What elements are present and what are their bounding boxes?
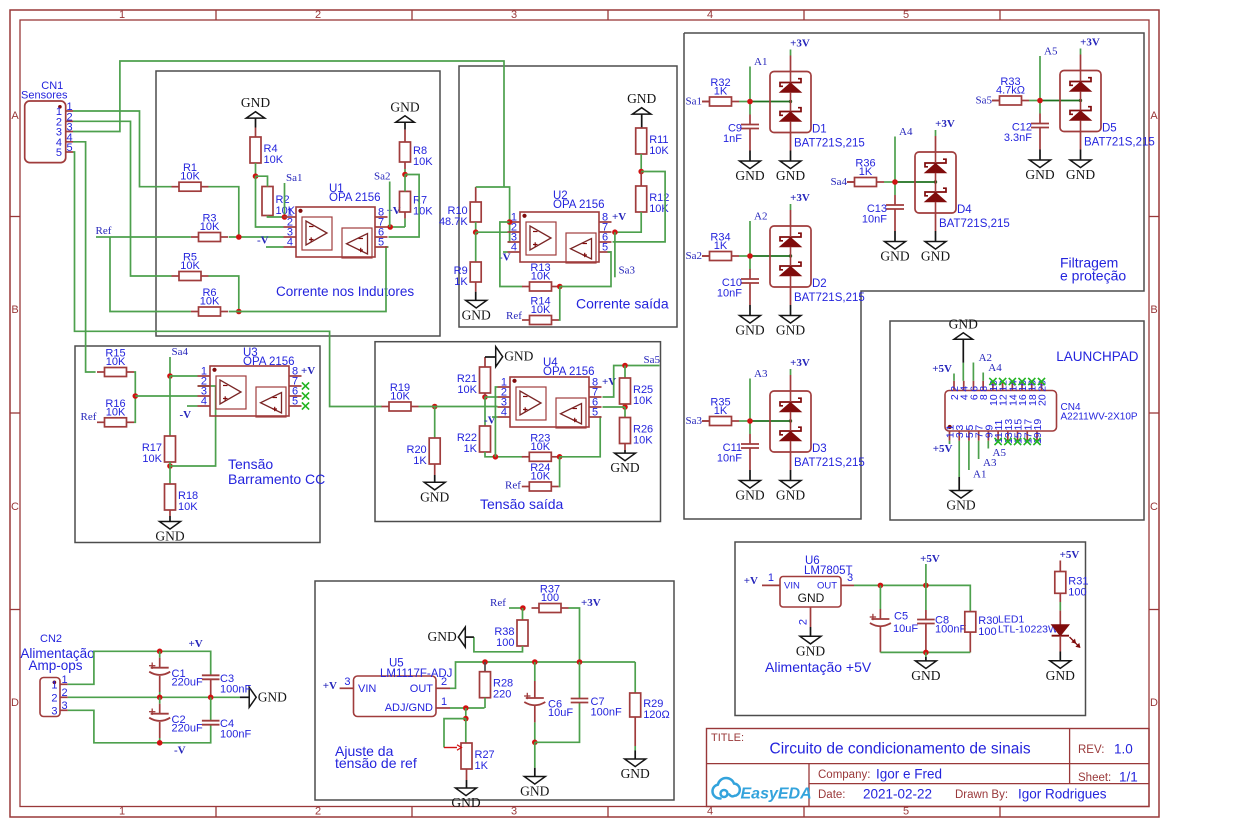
- svg-text:1nF: 1nF: [723, 133, 742, 145]
- svg-text:10K: 10K: [106, 406, 126, 418]
- svg-text:GND: GND: [610, 460, 639, 475]
- svg-text:5: 5: [903, 806, 909, 818]
- svg-text:D5: D5: [1102, 123, 1117, 135]
- svg-text:220uF: 220uF: [172, 723, 203, 735]
- svg-text:5: 5: [903, 9, 909, 21]
- svg-text:EasyEDA: EasyEDA: [741, 786, 812, 803]
- svg-text:100nF: 100nF: [220, 729, 251, 741]
- svg-text:A: A: [1150, 110, 1158, 122]
- svg-text:TITLE:: TITLE:: [711, 732, 744, 744]
- svg-text:GND: GND: [776, 488, 805, 503]
- svg-text:120Ω: 120Ω: [643, 709, 670, 721]
- svg-text:100nF: 100nF: [220, 683, 251, 695]
- svg-text:10K: 10K: [531, 471, 551, 483]
- svg-text:+V: +V: [612, 211, 626, 223]
- svg-text:+V: +V: [744, 575, 758, 587]
- svg-text:1: 1: [119, 806, 125, 818]
- svg-text:+3V: +3V: [790, 357, 810, 369]
- svg-text:10uF: 10uF: [893, 623, 918, 635]
- svg-text:1K: 1K: [475, 760, 489, 772]
- svg-text:Ref: Ref: [506, 310, 522, 322]
- svg-text:2: 2: [441, 676, 447, 688]
- svg-text:Corrente saída: Corrente saída: [576, 296, 669, 312]
- svg-text:GND: GND: [390, 99, 419, 114]
- svg-text:ADJ/GND: ADJ/GND: [385, 702, 433, 714]
- svg-text:Drawn By:: Drawn By:: [955, 789, 1008, 801]
- svg-text:1K: 1K: [714, 240, 728, 252]
- svg-text:GND: GND: [735, 488, 764, 503]
- svg-text:GND: GND: [520, 784, 549, 799]
- svg-text:2: 2: [51, 692, 57, 704]
- svg-text:REV:: REV:: [1078, 744, 1104, 756]
- svg-text:Barramento CC: Barramento CC: [228, 471, 325, 487]
- svg-text:10K: 10K: [633, 395, 653, 407]
- svg-text:GND: GND: [911, 668, 940, 683]
- svg-text:+5V: +5V: [932, 363, 952, 375]
- svg-text:Sa4: Sa4: [831, 176, 848, 188]
- svg-text:A2: A2: [754, 211, 767, 223]
- svg-text:1.0: 1.0: [1114, 742, 1133, 757]
- svg-text:LAUNCHPAD: LAUNCHPAD: [1056, 349, 1139, 364]
- svg-text:4: 4: [501, 407, 507, 419]
- svg-text:5: 5: [378, 237, 384, 249]
- svg-text:100: 100: [496, 637, 514, 649]
- svg-text:4: 4: [201, 396, 207, 408]
- svg-text:5: 5: [56, 147, 62, 159]
- svg-text:Circuito de condicionamento de: Circuito de condicionamento de sinais: [770, 741, 1031, 758]
- svg-text:Ref: Ref: [490, 597, 506, 609]
- svg-text:-V: -V: [257, 235, 269, 247]
- svg-text:2: 2: [315, 9, 321, 21]
- svg-text:GND: GND: [627, 91, 656, 106]
- svg-text:100: 100: [1068, 586, 1086, 598]
- svg-text:10K: 10K: [413, 206, 433, 218]
- svg-text:2021-02-22: 2021-02-22: [863, 787, 932, 802]
- svg-text:A4: A4: [988, 362, 1002, 374]
- svg-text:+5V: +5V: [920, 553, 940, 565]
- svg-text:Amp-ops: Amp-ops: [28, 658, 82, 673]
- svg-text:Corrente nos Indutores: Corrente nos Indutores: [276, 284, 414, 299]
- svg-text:10K: 10K: [531, 304, 551, 316]
- svg-text:BAT721S,215: BAT721S,215: [794, 457, 865, 469]
- svg-text:10K: 10K: [649, 145, 669, 157]
- svg-text:GND: GND: [1025, 167, 1054, 182]
- svg-text:1K: 1K: [714, 405, 728, 417]
- svg-text:A2211WV-2X10P: A2211WV-2X10P: [1061, 412, 1138, 423]
- svg-text:A5: A5: [1044, 46, 1058, 58]
- svg-text:GND: GND: [798, 591, 825, 605]
- svg-text:tensão de ref: tensão de ref: [335, 755, 417, 771]
- svg-text:1: 1: [62, 674, 68, 686]
- svg-text:GND: GND: [796, 643, 825, 658]
- svg-text:LTL-10223W: LTL-10223W: [998, 624, 1058, 636]
- svg-text:BAT721S,215: BAT721S,215: [794, 138, 865, 150]
- svg-text:+V: +V: [387, 205, 401, 217]
- svg-text:GND: GND: [241, 95, 270, 110]
- svg-text:A1: A1: [973, 469, 986, 481]
- svg-text:GND: GND: [621, 766, 650, 781]
- svg-text:220: 220: [493, 689, 511, 701]
- svg-text:10K: 10K: [178, 501, 198, 513]
- svg-text:BAT721S,215: BAT721S,215: [1084, 137, 1155, 149]
- svg-text:10K: 10K: [633, 435, 653, 447]
- svg-text:Sa3: Sa3: [619, 265, 636, 277]
- svg-text:+3V: +3V: [581, 597, 601, 609]
- svg-text:GND: GND: [155, 529, 184, 544]
- svg-text:OUT: OUT: [817, 581, 837, 592]
- svg-text:Sa2: Sa2: [686, 250, 703, 262]
- svg-text:4: 4: [707, 9, 713, 21]
- svg-text:GND: GND: [949, 316, 978, 331]
- svg-text:GND: GND: [428, 629, 457, 644]
- svg-text:10K: 10K: [200, 296, 220, 308]
- svg-text:VIN: VIN: [784, 581, 800, 592]
- svg-text:A4: A4: [899, 126, 913, 138]
- svg-text:C: C: [11, 501, 19, 513]
- svg-text:2: 2: [798, 619, 810, 625]
- svg-text:+3V: +3V: [1080, 37, 1100, 49]
- svg-text:10K: 10K: [413, 156, 433, 168]
- svg-text:100nF: 100nF: [935, 624, 966, 636]
- svg-text:10K: 10K: [531, 271, 551, 283]
- svg-text:C5: C5: [894, 611, 908, 623]
- svg-text:-V: -V: [180, 409, 192, 421]
- svg-text:1K: 1K: [454, 276, 468, 288]
- svg-text:5: 5: [602, 242, 608, 254]
- svg-text:1/1: 1/1: [1119, 770, 1138, 785]
- svg-text:D3: D3: [812, 443, 827, 455]
- svg-text:3.3nF: 3.3nF: [1004, 132, 1032, 144]
- svg-text:GND: GND: [420, 489, 449, 504]
- svg-text:GND: GND: [946, 498, 975, 513]
- svg-text:GND: GND: [921, 249, 950, 264]
- svg-text:LM7805T: LM7805T: [804, 565, 853, 577]
- svg-text:D2: D2: [812, 278, 827, 290]
- svg-text:GND: GND: [776, 168, 805, 183]
- svg-text:D4: D4: [957, 204, 972, 216]
- svg-text:GND: GND: [1066, 167, 1095, 182]
- svg-text:Igor e Fred: Igor e Fred: [876, 767, 942, 782]
- svg-text:Alimentação +5V: Alimentação +5V: [765, 659, 872, 675]
- svg-text:Date:: Date:: [818, 789, 846, 801]
- svg-text:Sa1: Sa1: [686, 96, 703, 108]
- svg-text:19: 19: [1032, 419, 1044, 431]
- svg-text:10K: 10K: [264, 154, 284, 166]
- svg-text:Ref: Ref: [505, 480, 521, 492]
- svg-text:BAT721S,215: BAT721S,215: [794, 292, 865, 304]
- svg-text:10K: 10K: [649, 203, 669, 215]
- svg-text:OPA 2156: OPA 2156: [243, 356, 295, 368]
- svg-text:C: C: [1150, 501, 1158, 513]
- svg-text:1K: 1K: [714, 86, 728, 98]
- svg-text:CN2: CN2: [40, 633, 62, 645]
- svg-text:+5V: +5V: [933, 443, 953, 455]
- svg-text:GND: GND: [504, 349, 533, 364]
- svg-text:D1: D1: [812, 124, 827, 136]
- svg-text:OPA 2156: OPA 2156: [329, 192, 381, 204]
- svg-text:D: D: [1150, 697, 1158, 709]
- svg-text:1: 1: [768, 572, 774, 584]
- svg-text:BAT721S,215: BAT721S,215: [939, 218, 1010, 230]
- svg-text:OUT: OUT: [410, 683, 434, 695]
- svg-text:+3V: +3V: [935, 118, 955, 130]
- svg-text:Tensão: Tensão: [228, 456, 273, 472]
- svg-text:GND: GND: [735, 168, 764, 183]
- svg-text:GND: GND: [258, 689, 287, 704]
- svg-text:GND: GND: [451, 795, 480, 810]
- svg-text:+3V: +3V: [790, 38, 810, 50]
- svg-text:-V: -V: [174, 745, 186, 757]
- svg-text:4.7kΩ: 4.7kΩ: [996, 85, 1025, 97]
- svg-text:4: 4: [511, 242, 517, 254]
- svg-text:Ref: Ref: [81, 411, 97, 423]
- svg-text:5: 5: [592, 407, 598, 419]
- svg-text:GND: GND: [462, 308, 491, 323]
- svg-text:10K: 10K: [200, 221, 220, 233]
- svg-text:+5V: +5V: [1060, 549, 1080, 561]
- svg-text:1K: 1K: [464, 443, 478, 455]
- svg-text:220uF: 220uF: [172, 677, 203, 689]
- svg-text:A: A: [11, 110, 19, 122]
- svg-text:5: 5: [292, 396, 298, 408]
- svg-text:10nF: 10nF: [717, 453, 742, 465]
- svg-text:Sa2: Sa2: [374, 171, 391, 183]
- svg-text:100: 100: [541, 592, 559, 604]
- svg-text:1K: 1K: [859, 166, 873, 178]
- svg-text:Tensão saída: Tensão saída: [480, 496, 563, 512]
- svg-text:+V: +V: [301, 365, 315, 377]
- svg-text:10K: 10K: [180, 260, 200, 272]
- svg-text:+3V: +3V: [790, 192, 810, 204]
- svg-text:10K: 10K: [180, 171, 200, 183]
- svg-text:4: 4: [707, 806, 713, 818]
- svg-text:100: 100: [978, 626, 996, 638]
- svg-text:10K: 10K: [457, 384, 477, 396]
- svg-text:10K: 10K: [390, 391, 410, 403]
- svg-text:D: D: [11, 697, 19, 709]
- svg-text:3: 3: [344, 676, 350, 688]
- svg-text:10uF: 10uF: [548, 707, 573, 719]
- svg-text:48.7K: 48.7K: [439, 216, 468, 228]
- svg-text:2: 2: [62, 687, 68, 699]
- svg-text:3: 3: [511, 9, 517, 21]
- svg-text:OPA 2156: OPA 2156: [553, 199, 605, 211]
- svg-text:3: 3: [511, 806, 517, 818]
- svg-text:3: 3: [51, 705, 57, 717]
- svg-text:1: 1: [51, 679, 57, 691]
- svg-text:Sensores: Sensores: [21, 90, 68, 102]
- svg-text:VIN: VIN: [358, 683, 376, 695]
- svg-text:Sheet:: Sheet:: [1078, 772, 1111, 784]
- svg-text:B: B: [1150, 304, 1157, 316]
- svg-text:A3: A3: [754, 368, 768, 380]
- svg-text:A1: A1: [754, 56, 767, 68]
- svg-text:100nF: 100nF: [591, 707, 622, 719]
- svg-text:GND: GND: [735, 323, 764, 338]
- svg-text:Sa3: Sa3: [686, 415, 703, 427]
- svg-text:10K: 10K: [142, 453, 162, 465]
- svg-text:+V: +V: [323, 680, 337, 692]
- svg-text:3: 3: [847, 572, 853, 584]
- svg-text:OPA 2156: OPA 2156: [543, 366, 595, 378]
- svg-text:e proteção: e proteção: [1060, 268, 1126, 284]
- svg-text:Sa1: Sa1: [286, 172, 303, 184]
- svg-text:1: 1: [119, 9, 125, 21]
- svg-text:10nF: 10nF: [717, 288, 742, 300]
- svg-text:Igor Rodrigues: Igor Rodrigues: [1018, 787, 1107, 802]
- svg-text:A5: A5: [993, 447, 1007, 459]
- svg-text:3: 3: [62, 700, 68, 712]
- svg-text:10K: 10K: [106, 356, 126, 368]
- svg-text:1K: 1K: [413, 455, 427, 467]
- svg-text:GND: GND: [776, 323, 805, 338]
- svg-text:Company:: Company:: [818, 769, 870, 781]
- svg-text:GND: GND: [1046, 668, 1075, 683]
- svg-text:Ref: Ref: [96, 225, 112, 237]
- svg-text:+V: +V: [189, 638, 203, 650]
- svg-text:1: 1: [441, 696, 447, 708]
- svg-text:10K: 10K: [531, 441, 551, 453]
- svg-text:GND: GND: [880, 249, 909, 264]
- svg-text:10nF: 10nF: [862, 214, 887, 226]
- svg-text:Sa4: Sa4: [172, 346, 189, 358]
- svg-text:2: 2: [315, 806, 321, 818]
- svg-text:20: 20: [1036, 394, 1048, 406]
- svg-text:5: 5: [67, 142, 73, 154]
- svg-text:Sa5: Sa5: [644, 354, 661, 366]
- svg-text:Sa5: Sa5: [976, 95, 993, 107]
- svg-text:B: B: [11, 304, 18, 316]
- svg-text:4: 4: [287, 237, 293, 249]
